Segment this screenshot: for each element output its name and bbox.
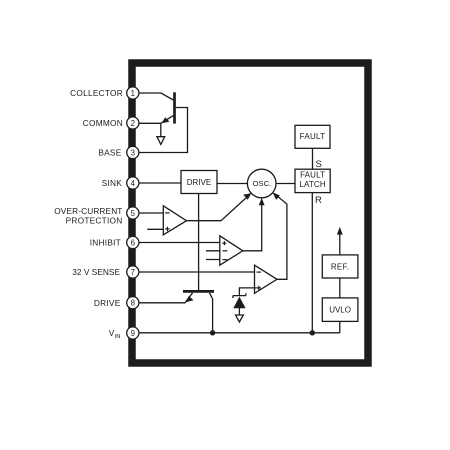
- A3 minus sign: [257, 271, 262, 273]
- wire pin2 to Q1 emitter junction: [140, 122, 161, 124]
- A2 minus sign bottom: [223, 259, 228, 261]
- wire pin5 to comparator A1: [140, 212, 165, 214]
- svg-text:DRIVE: DRIVE: [94, 298, 121, 308]
- ground stub at Q1 emitter: [160, 123, 162, 136]
- Vin rail from pin9: [140, 332, 340, 334]
- svg-text:INHIBIT: INHIBIT: [90, 238, 121, 248]
- A2 plus sign: [222, 241, 226, 245]
- pin 6: [127, 236, 139, 248]
- ground arrow (open triangle): [157, 137, 165, 145]
- svg-text:S: S: [316, 159, 322, 170]
- wire pin1 to Q1 collector: [140, 93, 174, 100]
- ground arrow below zener (open triangle): [236, 315, 244, 322]
- wire Q1 base to pin3: [140, 108, 188, 153]
- comparator A2 (inhibit): [220, 236, 243, 265]
- arrowhead A3 to OSC: [273, 192, 280, 200]
- wire DRIVE to OSC: [217, 183, 247, 185]
- svg-text:UVLO: UVLO: [329, 306, 351, 315]
- A1 minus sign: [165, 212, 169, 214]
- transistor Q1 emitter arrow: [162, 117, 170, 123]
- pin 7: [127, 266, 139, 278]
- junction dot latch-Vin rail: [310, 330, 315, 335]
- wire FAULT LATCH R down to rail: [311, 193, 313, 333]
- zener D1 anode triangle: [233, 297, 245, 309]
- wire pin8 to Q2 emitter: [140, 293, 193, 303]
- comparator A1 (over-current): [163, 206, 186, 235]
- wire A1 output to OSC: [187, 194, 250, 220]
- svg-text:32 V SENSE: 32 V SENSE: [72, 267, 120, 277]
- svg-text:IN: IN: [115, 334, 121, 340]
- pin 4: [127, 177, 139, 189]
- svg-text:COMMON: COMMON: [83, 118, 123, 128]
- wire pin4 to DRIVE: [140, 182, 182, 184]
- transistor Q1 emitter: [161, 116, 174, 124]
- IC package border: [132, 63, 368, 363]
- svg-text:DRIVE: DRIVE: [187, 178, 211, 187]
- pin 9: [127, 327, 139, 339]
- transistor Q1 base bar: [173, 92, 176, 123]
- svg-text:BASE: BASE: [98, 148, 121, 158]
- FAULT box: [295, 125, 330, 148]
- A3 plus sign: [257, 286, 261, 290]
- junction dot Q2-Vin rail: [210, 330, 215, 335]
- comparator A2 stub middle: [206, 250, 223, 252]
- wire pin7 to comparator A3: [140, 271, 257, 273]
- pin 2: [127, 117, 139, 129]
- arrowhead A2 to OSC: [259, 198, 265, 206]
- wire REF to UVLO: [339, 278, 341, 298]
- comparator A3 (32V sense): [255, 265, 278, 293]
- svg-text:8: 8: [131, 299, 135, 308]
- transistor Q2 emitter arrow: [186, 296, 194, 302]
- A1 plus sign: [165, 227, 169, 231]
- svg-text:LATCH: LATCH: [299, 180, 325, 189]
- svg-text:5: 5: [131, 209, 136, 218]
- pin 3: [127, 146, 139, 158]
- wire A3 plus input to zener: [239, 288, 256, 295]
- wire FAULT to FAULT LATCH (S): [312, 148, 314, 169]
- wire OSC to FAULT LATCH: [276, 183, 295, 185]
- FAULT LATCH box: [295, 169, 330, 192]
- wire UVLO to rail: [339, 321, 341, 332]
- wire A2 output to OSC: [243, 200, 262, 251]
- arrowhead REF up: [337, 227, 343, 235]
- oscillator OSC circle: [247, 169, 276, 198]
- REF box: [322, 255, 358, 278]
- svg-text:FAULT: FAULT: [300, 171, 325, 180]
- svg-text:4: 4: [131, 179, 136, 188]
- A2 minus sign mid: [223, 250, 228, 252]
- transistor Q2 collector: [210, 293, 213, 333]
- svg-text:REF.: REF.: [331, 263, 350, 272]
- arrowhead A1 to OSC: [243, 193, 251, 200]
- svg-text:1: 1: [131, 89, 135, 98]
- svg-text:7: 7: [131, 268, 135, 277]
- svg-text:R: R: [315, 195, 322, 206]
- wire DRIVE output down to Q2 base: [198, 194, 200, 291]
- pin 1: [127, 87, 139, 99]
- svg-text:3: 3: [131, 148, 135, 157]
- svg-text:SINK: SINK: [102, 178, 123, 188]
- svg-text:2: 2: [131, 119, 135, 128]
- wire zener down: [238, 308, 240, 315]
- comparator A1 reference stub: [147, 228, 164, 230]
- pin 5: [127, 207, 139, 219]
- UVLO box: [322, 298, 358, 322]
- REF output arrow up: [339, 230, 341, 255]
- svg-text:PROTECTION: PROTECTION: [66, 216, 123, 226]
- svg-text:FAULT: FAULT: [300, 132, 326, 141]
- pin 8: [127, 297, 139, 309]
- wire pin6 to comparator A2: [140, 242, 223, 244]
- wire A3 output to OSC: [274, 193, 287, 279]
- comparator A2 stub bottom: [206, 259, 223, 261]
- DRIVE box: [181, 171, 217, 194]
- svg-text:OSC.: OSC.: [253, 179, 272, 188]
- svg-text:OVER-CURRENT: OVER-CURRENT: [54, 206, 122, 216]
- svg-text:COLLECTOR: COLLECTOR: [70, 88, 123, 98]
- svg-text:6: 6: [131, 238, 135, 247]
- zener D1 cathode bar: [233, 293, 246, 298]
- svg-text:9: 9: [131, 329, 135, 338]
- transistor Q2 base bar: [183, 290, 214, 293]
